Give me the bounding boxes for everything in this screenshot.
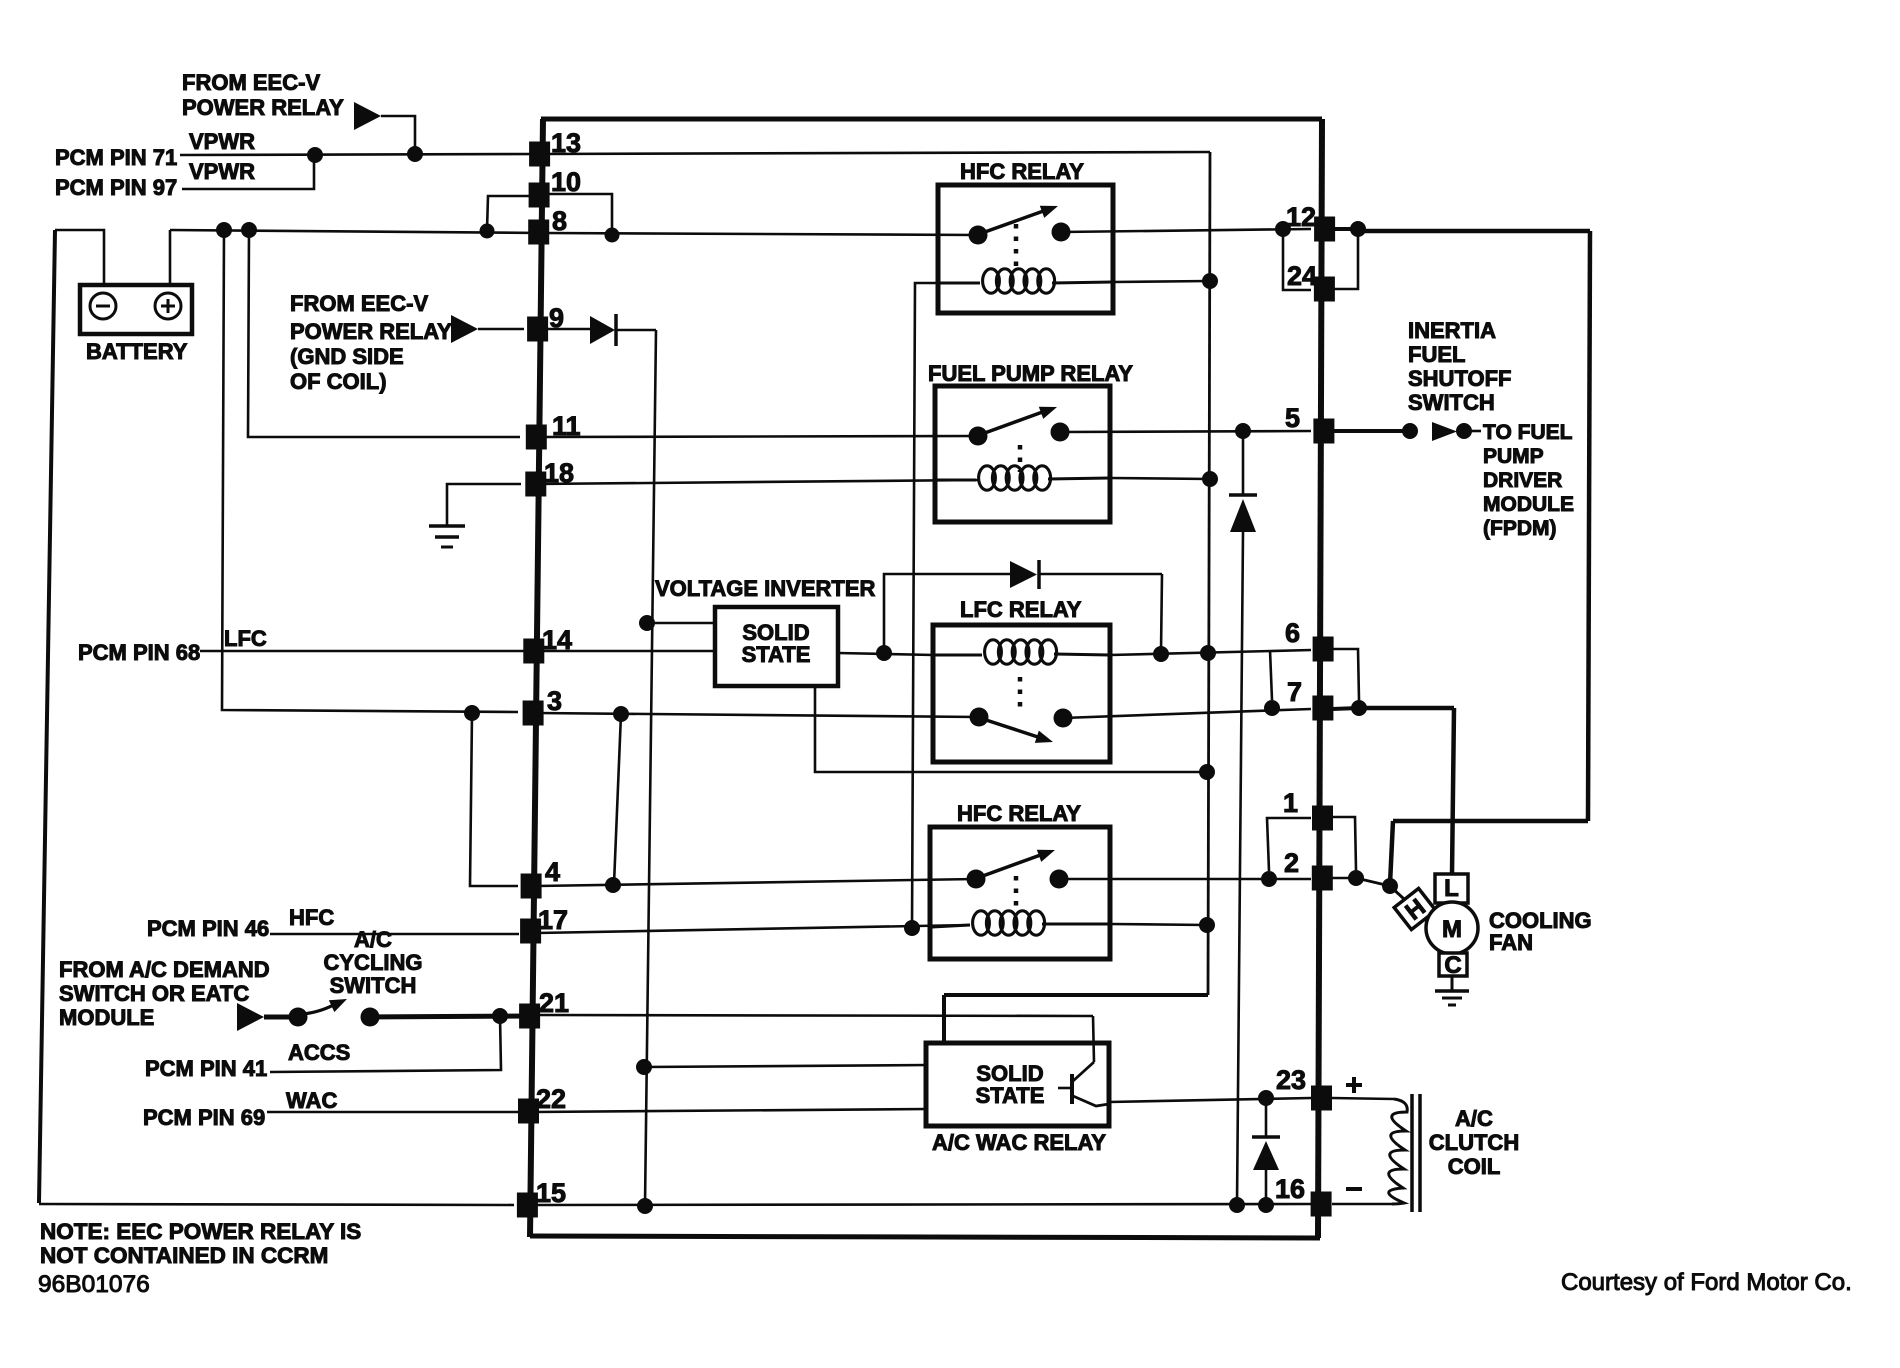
ground symbol G2 under fan bbox=[1451, 976, 1454, 991]
wire battery negative to ground bus bbox=[55, 230, 104, 285]
svg-text:16: 16 bbox=[1275, 1174, 1305, 1204]
A/C cycling switch S1 contact right bbox=[361, 1008, 380, 1027]
svg-text:LFC RELAY: LFC RELAY bbox=[960, 597, 1082, 622]
junction feed to WAC relay bbox=[636, 1059, 652, 1075]
svg-text:SWITCH: SWITCH bbox=[1408, 390, 1495, 415]
junction HFC coil bus bbox=[904, 920, 920, 936]
wire fan high feed bottom bbox=[1393, 819, 1588, 824]
svg-text:L: L bbox=[1444, 875, 1459, 902]
relay K3 actuation dotted link bbox=[1018, 677, 1023, 708]
wire LFC pin 68 to pin 14 and inverter bbox=[200, 650, 716, 653]
cooling fan motor M1 terminal H bbox=[1394, 888, 1436, 930]
junction feed to ground wire 15 bbox=[637, 1198, 653, 1214]
wire inertia switch to FPDM bbox=[1468, 430, 1481, 433]
wire node A down to pin 3 wire bbox=[222, 230, 518, 712]
relay K1 switch arm bbox=[982, 209, 1049, 233]
relay K2 box bbox=[935, 386, 1110, 522]
junction fan feed node bbox=[1382, 878, 1398, 894]
wire to fan H terminal bbox=[1390, 886, 1404, 899]
wire VPWR to pin 13 bbox=[180, 154, 543, 155]
junction jumper on pin 8 wire right bbox=[605, 228, 620, 243]
wire pin 22 to WAC relay bbox=[534, 1109, 928, 1112]
junction B+ bus node A bbox=[216, 222, 232, 238]
wire jumper pin6-pin7 right bbox=[1332, 649, 1359, 700]
junction diode CR4 on ground wire bbox=[1258, 1197, 1274, 1213]
pin 18 bbox=[525, 472, 546, 497]
relay K1 coil bbox=[940, 282, 980, 285]
pin 5 bbox=[1313, 419, 1334, 444]
svg-text:NOT CONTAINED IN CCRM: NOT CONTAINED IN CCRM bbox=[40, 1243, 328, 1268]
relay K4 switch arm bbox=[980, 853, 1046, 877]
pin 24 bbox=[1314, 277, 1335, 302]
svg-text:5: 5 bbox=[1285, 403, 1300, 433]
battery B1 bbox=[80, 285, 192, 334]
wire relay K3 coil output to pin 6 bbox=[1110, 650, 1311, 655]
pin 10 bbox=[529, 183, 550, 208]
wire arrow to pin 9 bbox=[478, 328, 524, 331]
diode CR3 bbox=[1242, 431, 1245, 495]
junction on VPWR wire (EEC-V relay tap) bbox=[407, 146, 423, 162]
svg-text:PCM PIN 69: PCM PIN 69 bbox=[143, 1105, 265, 1130]
wire inverter bottom output bbox=[815, 686, 1206, 772]
label - terminal bbox=[1346, 1187, 1362, 1191]
wire pin 7 to cooling fan low bbox=[1332, 708, 1359, 709]
svg-text:BATTERY: BATTERY bbox=[86, 339, 188, 364]
A/C cycling switch S1 contact left bbox=[289, 1008, 308, 1027]
svg-text:FROM EEC-V: FROM EEC-V bbox=[290, 291, 428, 316]
junction on VPWR wire (PCM 97 tap) bbox=[307, 147, 323, 163]
wire pin 2 to cooling fan bbox=[1332, 877, 1356, 880]
svg-text:M: M bbox=[1442, 916, 1462, 943]
wire WAC emitter to pin 23 bbox=[1109, 1098, 1311, 1102]
junction VPWR to HFC relay coil bbox=[1202, 273, 1218, 289]
wire HFC coil bus vertical bbox=[912, 283, 938, 928]
svg-text:OF COIL): OF COIL) bbox=[290, 369, 387, 394]
svg-text:PCM PIN 68: PCM PIN 68 bbox=[78, 640, 200, 665]
junction VPWR to LFC relay coil bbox=[1200, 645, 1216, 661]
svg-text:FROM A/C DEMAND: FROM A/C DEMAND bbox=[59, 957, 270, 982]
svg-text:3: 3 bbox=[547, 686, 562, 716]
svg-text:4: 4 bbox=[545, 857, 560, 887]
relay K4 switch contacts bbox=[967, 870, 986, 889]
relay K3 coil bbox=[935, 654, 982, 657]
svg-text:COIL: COIL bbox=[1448, 1154, 1501, 1179]
relay K1 actuation dotted link bbox=[1014, 224, 1019, 268]
wire jumper pin6-pin7 left bbox=[1270, 650, 1272, 700]
svg-text:A/C: A/C bbox=[354, 927, 392, 952]
cooling fan motor M1 terminal C bbox=[1439, 953, 1467, 976]
wire relay K2 switch output to pin 5 bbox=[1060, 431, 1311, 432]
wire pin 18 to fuel pump relay coil bbox=[537, 480, 980, 484]
svg-text:PCM PIN 46: PCM PIN 46 bbox=[147, 916, 269, 941]
svg-text:NOTE: EEC POWER RELAY IS: NOTE: EEC POWER RELAY IS bbox=[40, 1219, 361, 1244]
wire ACCS to pin 21 wire bbox=[270, 1016, 501, 1072]
wire cycling switch to pin 21 bbox=[370, 1016, 534, 1017]
pin 4 bbox=[521, 874, 542, 899]
wire relay K1 coil to VPWR bbox=[1113, 281, 1210, 282]
junction jumper on pin 2 wire right bbox=[1348, 870, 1364, 886]
wire pin 8 to HFC relay switch bbox=[545, 233, 978, 235]
svg-text:10: 10 bbox=[551, 167, 581, 197]
wire pin 9 to diode CR1 bbox=[543, 328, 590, 331]
wire pin 13 VPWR bus horizontal bbox=[545, 152, 1210, 154]
junction jumper on pin 7 wire right bbox=[1351, 700, 1367, 716]
relay K4 coil bbox=[932, 925, 970, 927]
svg-text:7: 7 bbox=[1287, 677, 1302, 707]
transistor Q1 emitter bbox=[1073, 1096, 1109, 1106]
wire WAC pin 69 to pin 22 bbox=[267, 1111, 520, 1114]
junction pin 12 fan feed bbox=[1350, 221, 1366, 237]
pin 23 bbox=[1311, 1086, 1332, 1111]
svg-text:CYCLING: CYCLING bbox=[324, 950, 423, 975]
svg-text:PUMP: PUMP bbox=[1483, 445, 1544, 468]
relay K3 switch arm bbox=[983, 719, 1044, 739]
junction pin 5 wire to diode CR3 bbox=[1235, 423, 1251, 439]
svg-text:24: 24 bbox=[1287, 261, 1317, 291]
transistor Q1 collector bbox=[1073, 1062, 1094, 1081]
svg-text:VPWR: VPWR bbox=[189, 159, 255, 184]
junction pin3 wire to jumper D bbox=[613, 706, 629, 722]
A/C cycling switch S1 arm bbox=[303, 1002, 339, 1014]
wire VPWR bus jog to WAC transistor bbox=[944, 993, 1208, 997]
relay K4 actuation dotted link bbox=[1014, 876, 1019, 906]
svg-text:LFC: LFC bbox=[224, 626, 267, 651]
wire pin 16 to clutch coil bbox=[1332, 1203, 1392, 1206]
CCRM module top edge bbox=[541, 117, 1322, 122]
junction jumper on pin 7 wire left bbox=[1264, 700, 1280, 716]
wire inverter/WAC feed vertical bbox=[645, 330, 656, 1205]
wire relay K4 coil to VPWR bbox=[1110, 924, 1207, 925]
svg-text:15: 15 bbox=[536, 1178, 566, 1208]
svg-text:A/C: A/C bbox=[1455, 1106, 1493, 1131]
wire pin 23 to clutch coil bbox=[1332, 1098, 1394, 1099]
wire diode CR1 to inverter bus bbox=[616, 329, 656, 332]
wire B+ bus to pin 8 bbox=[170, 230, 543, 233]
wire jumper D to pin 4 wire bbox=[614, 714, 621, 884]
pin 2 bbox=[1312, 866, 1333, 891]
wire battery positive to B+ bus bbox=[169, 230, 172, 285]
relay K2 coil bbox=[937, 479, 976, 482]
pin 16 bbox=[1311, 1192, 1332, 1217]
svg-text:FAN: FAN bbox=[1489, 930, 1533, 955]
relay K2 switch arm bbox=[982, 410, 1048, 434]
pin 22 bbox=[518, 1099, 539, 1124]
wire VPWR bus vertical bbox=[1208, 152, 1210, 995]
relay K3 switch contacts bbox=[970, 708, 989, 727]
wire fan high feed top bbox=[1358, 229, 1590, 234]
svg-text:96B01076: 96B01076 bbox=[38, 1271, 150, 1298]
junction VPWR to fuel pump relay coil bbox=[1202, 471, 1218, 487]
wire feed to WAC relay input bbox=[644, 1065, 928, 1067]
junction pin 23 wire to diode CR4 bbox=[1258, 1090, 1274, 1106]
wire pin 3 to LFC relay switch bbox=[537, 713, 979, 717]
svg-text:SHUTOFF: SHUTOFF bbox=[1408, 366, 1511, 391]
svg-text:FUEL: FUEL bbox=[1408, 342, 1465, 367]
svg-text:MODULE: MODULE bbox=[1483, 493, 1574, 516]
pin 14 bbox=[523, 639, 544, 664]
off-page connector arrow (from EEC-V power relay) bbox=[354, 102, 381, 130]
svg-text:(FPDM): (FPDM) bbox=[1483, 517, 1556, 540]
svg-text:INERTIA: INERTIA bbox=[1408, 318, 1496, 343]
A/C clutch coil L1 bbox=[1389, 1099, 1407, 1204]
wire PCM PIN 97 VPWR bbox=[182, 156, 314, 189]
wire node B down to pin 11 wire bbox=[248, 230, 520, 437]
svg-text:STATE: STATE bbox=[976, 1083, 1045, 1108]
wire pin 5 to inertia switch bbox=[1332, 429, 1412, 433]
pin 15 bbox=[517, 1193, 538, 1218]
label + terminal bbox=[1346, 1083, 1362, 1087]
svg-text:VOLTAGE INVERTER: VOLTAGE INVERTER bbox=[655, 576, 876, 601]
junction B+ bus node B bbox=[241, 222, 257, 238]
svg-text:DRIVER: DRIVER bbox=[1483, 469, 1562, 492]
wire inverter supply input bbox=[647, 622, 716, 625]
junction jumper on pin 2 wire left bbox=[1261, 871, 1277, 887]
pin 9 bbox=[527, 317, 548, 342]
wire inverter output to LFC relay coil bbox=[838, 653, 934, 655]
junction pin 12 jumper left bbox=[1275, 221, 1291, 237]
relay K5 A/C WAC solid state box bbox=[926, 1043, 1109, 1126]
wire jumper pin1-pin2 left bbox=[1267, 818, 1311, 871]
wire HFC pin 46 to pin 17 bbox=[270, 933, 519, 936]
wire pin 11 to fuel pump relay switch bbox=[537, 436, 978, 437]
svg-text:Courtesy of Ford Motor Co.: Courtesy of Ford Motor Co. bbox=[1561, 1269, 1852, 1296]
wire pin 4 to HFC low relay switch bbox=[537, 879, 976, 886]
wire arrow to cycling switch bbox=[264, 1015, 298, 1020]
svg-text:PCM PIN 97: PCM PIN 97 bbox=[55, 175, 177, 200]
svg-text:VPWR: VPWR bbox=[189, 129, 255, 154]
pin 3 bbox=[523, 701, 544, 726]
junction pin3 wire to jumper C bbox=[464, 705, 480, 721]
inertia switch S2 contact right bbox=[1456, 423, 1472, 439]
svg-text:PCM PIN 41: PCM PIN 41 bbox=[145, 1056, 267, 1081]
svg-text:SWITCH OR EATC: SWITCH OR EATC bbox=[59, 981, 249, 1006]
wire relay K2 coil to VPWR bbox=[1110, 478, 1210, 479]
wire pin 10 jumper right to pin 8 wire bbox=[545, 194, 612, 234]
junction jumper D on pin 4 wire bbox=[605, 877, 621, 893]
wire relay K4 switch output to pin 2 bbox=[1059, 878, 1311, 881]
junction inverter output / diode bypass bbox=[876, 645, 892, 661]
relay K2 switch contacts bbox=[969, 427, 988, 446]
wire jumper pin12-pin24 right bbox=[1332, 229, 1358, 289]
relay K1 HFC box bbox=[938, 185, 1113, 313]
CCRM module left edge bbox=[530, 119, 543, 1237]
CCRM module right edge bbox=[1318, 119, 1322, 1238]
wire fan high feed drop to H bbox=[1390, 821, 1393, 884]
wire pin 17 to HFC coils bbox=[537, 925, 970, 933]
svg-text:SWITCH: SWITCH bbox=[330, 973, 417, 998]
svg-text:23: 23 bbox=[1276, 1065, 1306, 1095]
svg-text:8: 8 bbox=[552, 206, 567, 236]
pin 8 bbox=[528, 220, 549, 245]
wire pin 21 to WAC transistor collector bbox=[537, 1015, 1093, 1016]
svg-text:STATE: STATE bbox=[742, 642, 811, 667]
wire jumper pin12-pin24 left bbox=[1283, 229, 1311, 290]
svg-text:1: 1 bbox=[1283, 788, 1298, 818]
cooling fan motor M1 terminal L bbox=[1435, 874, 1468, 903]
wire pin 12 to fan feed bbox=[1332, 227, 1360, 231]
wire pin 10 jumper left to pin 8 wire bbox=[487, 196, 530, 230]
junction diode bypass to coil output bbox=[1153, 646, 1169, 662]
transistor Q1 base bar bbox=[1070, 1074, 1074, 1104]
svg-text:HFC: HFC bbox=[289, 905, 334, 930]
voltage inverter U1 solid state box bbox=[715, 607, 838, 686]
relay K2 actuation dotted link bbox=[1018, 445, 1023, 472]
relay K3 box bbox=[933, 625, 1110, 762]
pin 17 bbox=[520, 919, 541, 944]
ground symbol G1 bbox=[429, 524, 465, 528]
cooling fan motor M1 bbox=[1426, 902, 1478, 954]
pin 6 bbox=[1313, 637, 1334, 662]
junction diode CR3 on ground wire bbox=[1229, 1197, 1245, 1213]
A/C clutch coil core bbox=[1410, 1094, 1414, 1212]
pin 1 bbox=[1312, 806, 1333, 831]
svg-text:HFC RELAY: HFC RELAY bbox=[957, 801, 1081, 826]
off-page connector arrow (gnd side of coil) bbox=[451, 315, 478, 343]
svg-text:21: 21 bbox=[539, 988, 569, 1018]
wire jumper C down to pin 4 wire bbox=[470, 713, 518, 886]
off-page connector arrow (A/C demand) bbox=[237, 1003, 264, 1031]
svg-text:CLUTCH: CLUTCH bbox=[1429, 1130, 1519, 1155]
diode CR4 clamp bbox=[1265, 1098, 1268, 1137]
pin 11 bbox=[526, 425, 547, 450]
pin 12 bbox=[1314, 217, 1335, 242]
svg-text:POWER RELAY: POWER RELAY bbox=[182, 95, 344, 120]
junction jumper on pin 8 wire left bbox=[480, 224, 495, 239]
svg-text:ACCS: ACCS bbox=[288, 1040, 350, 1065]
svg-text:A/C WAC RELAY: A/C WAC RELAY bbox=[932, 1130, 1106, 1155]
diode CR2 bypass path bbox=[884, 574, 1010, 653]
svg-text:HFC RELAY: HFC RELAY bbox=[960, 159, 1084, 184]
junction feed to voltage inverter bbox=[639, 615, 655, 631]
wire jumper pin1-pin2 right bbox=[1332, 817, 1356, 870]
svg-text:FROM EEC-V: FROM EEC-V bbox=[182, 70, 320, 95]
inertia switch S2 contact left bbox=[1402, 423, 1418, 439]
svg-text:C: C bbox=[1444, 952, 1461, 979]
transistor Q1 base lead bbox=[1058, 1087, 1072, 1090]
wire fan high feed right edge bbox=[1588, 231, 1590, 821]
wire left ground bus vertical bbox=[39, 230, 55, 1203]
wire pin 18 ground stub bbox=[447, 484, 521, 526]
wire collector drop bbox=[1093, 1016, 1094, 1062]
wire diode CR3 to ground wire bbox=[1237, 532, 1243, 1204]
svg-text:22: 22 bbox=[536, 1084, 566, 1114]
svg-text:PCM PIN 71: PCM PIN 71 bbox=[55, 145, 177, 170]
relay K1 switch contacts bbox=[969, 226, 988, 245]
pin 13 bbox=[529, 142, 550, 167]
relay K4 box bbox=[930, 827, 1110, 959]
svg-text:TO FUEL: TO FUEL bbox=[1483, 421, 1573, 444]
svg-text:FUEL PUMP RELAY: FUEL PUMP RELAY bbox=[928, 361, 1133, 386]
svg-text:MODULE: MODULE bbox=[59, 1005, 154, 1030]
wire relay K3 switch output to pin 7 bbox=[1063, 709, 1311, 718]
svg-text:2: 2 bbox=[1284, 848, 1299, 878]
pin 21 bbox=[519, 1004, 540, 1029]
svg-text:(GND SIDE: (GND SIDE bbox=[290, 344, 404, 369]
svg-text:POWER RELAY: POWER RELAY bbox=[290, 319, 452, 344]
svg-text:17: 17 bbox=[538, 905, 568, 935]
CCRM module bottom edge bbox=[530, 1236, 1320, 1238]
diode CR1 bbox=[590, 316, 615, 344]
svg-text:WAC: WAC bbox=[286, 1088, 337, 1113]
junction VPWR to inverter output line bbox=[1199, 764, 1215, 780]
wire pin 15 to pin 16 ground return bbox=[537, 1204, 1311, 1205]
inertia switch S2 blade bbox=[1432, 422, 1457, 441]
junction VPWR to HFC low relay coil bbox=[1199, 917, 1215, 933]
svg-text:6: 6 bbox=[1285, 618, 1300, 648]
junction ACCS tap bbox=[492, 1008, 508, 1024]
pin 7 bbox=[1312, 696, 1333, 721]
wire ground bus to pin 15 bbox=[39, 1204, 514, 1205]
wire from EEC-V arrow to VPWR node bbox=[381, 116, 415, 152]
wire relay K1 switch output to pin 12 bbox=[1061, 229, 1311, 232]
